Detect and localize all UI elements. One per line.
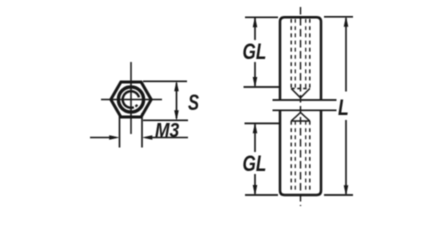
right view: upper break line xyxy=(273,99,337,101)
dimension GL top: upper arrowhead xyxy=(253,18,257,27)
dimension L: upper arrowhead xyxy=(344,18,348,27)
dimension M3: left arrowhead pointing right xyxy=(110,136,119,140)
dimension M3: left arrow line xyxy=(90,137,114,139)
dimension GL top: lower arrowhead xyxy=(253,77,257,86)
svg-text:GL: GL xyxy=(243,152,267,177)
dimension M3: right arrowhead pointing left xyxy=(143,136,152,140)
dimension GL bottom: thread end extension line xyxy=(245,122,280,124)
svg-text:L: L xyxy=(338,96,349,120)
dimension S: top extension line xyxy=(143,80,187,82)
dimension GL top: top extension line left of body xyxy=(245,16,278,18)
right view: top thread major hidden line right xyxy=(309,19,311,89)
right view: bottom thread minor hidden line right xyxy=(305,121,307,190)
dimension S: lower arrowhead xyxy=(175,111,179,120)
dimension GL bottom: upper arrowhead xyxy=(253,124,257,133)
right view: top thread minor hidden line left xyxy=(294,19,296,89)
dimension M3: right arrow line xyxy=(147,137,188,139)
right view: center line through part xyxy=(300,7,302,206)
dimension L: arrow line lower segment xyxy=(345,120,347,194)
left view: vertical center line xyxy=(130,62,132,134)
left view: hexagon body outline xyxy=(111,82,151,117)
right view: lower break line xyxy=(273,109,337,111)
dimension S: upper arrowhead xyxy=(175,82,179,91)
dimension GL top: thread end extension line xyxy=(244,86,280,88)
right view: top hole cone base line xyxy=(291,88,310,90)
svg-text:M3: M3 xyxy=(155,120,180,143)
right view: top thread major hidden line left xyxy=(290,19,292,89)
dimension GL bottom: lower arrowhead xyxy=(253,185,257,194)
dimension GL top: arrow line upper segment xyxy=(254,18,256,40)
dimension GL bottom: bottom extension line left of body xyxy=(245,194,278,196)
right view: body upper outline with rounded corners xyxy=(280,17,321,100)
right view: bottom thread major hidden line right xyxy=(309,121,311,190)
right view: bottom hole cone base line xyxy=(291,120,310,122)
dimension L: bottom extension line right of body xyxy=(324,194,353,196)
left view: inner thread circle small arc segment xyxy=(135,105,137,107)
dimension S: arrow line xyxy=(176,83,178,119)
right view: top thread minor hidden line right xyxy=(305,19,307,89)
right view: top hole drill cone xyxy=(291,89,310,98)
dimension GL bottom: arrow line lower segment xyxy=(254,174,256,194)
right view: bottom thread major hidden line left xyxy=(290,121,292,190)
right view: bottom thread minor hidden line left xyxy=(294,121,296,190)
right view: body lower outline with rounded corners xyxy=(280,110,321,195)
dimension M3: right extension line xyxy=(141,113,143,148)
right view: bottom hole drill cone xyxy=(291,113,310,122)
left view: outer chamfer circle xyxy=(118,87,143,112)
left view: inner thread circle (3/4 arc with gap lower right) xyxy=(123,91,139,108)
dimension GL bottom: arrow line upper segment xyxy=(254,124,256,152)
svg-text:GL: GL xyxy=(243,40,267,65)
left view: horizontal center line xyxy=(101,99,162,101)
dimension L: top extension line right of body xyxy=(324,16,353,18)
dimension L: arrow line upper segment xyxy=(345,18,347,92)
dimension L: lower arrowhead xyxy=(344,186,348,195)
dimension S: bottom extension line xyxy=(143,119,188,121)
dimension GL top: arrow line lower segment xyxy=(254,62,256,86)
svg-text:S: S xyxy=(188,91,199,116)
dimension M3: left extension line xyxy=(119,113,121,148)
